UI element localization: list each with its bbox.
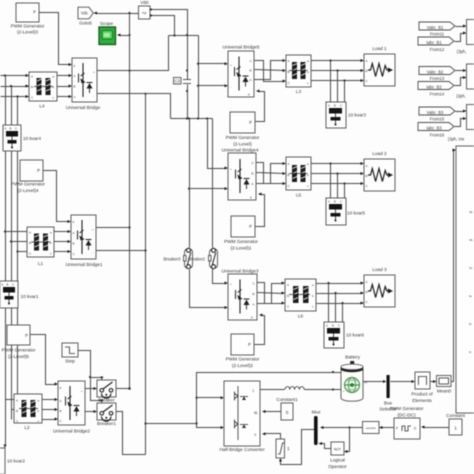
svg-text:A: A: [29, 231, 31, 235]
wire bus to halfbridge horizontal: [146, 423, 197, 425]
svg-text:P: P: [249, 120, 252, 125]
wire breaker3 branch lower to UB3 minus: [190, 270, 227, 308]
svg-text:+: +: [230, 282, 232, 286]
svg-text:-: -: [230, 85, 231, 89]
node V80 tap: [128, 12, 130, 14]
svg-text:Universal Bridge: Universal Bridge: [66, 105, 101, 110]
svg-text:Constant: Constant: [446, 413, 465, 418]
wire L3 to Load1 phase A: [312, 60, 363, 62]
wire L3 to Load1 phase C: [312, 80, 363, 82]
wire feeder vertical C: [17, 97, 19, 420]
svg-text:A: A: [5, 127, 7, 131]
svg-text:(2-Level)5: (2-Level)5: [8, 354, 29, 359]
svg-text:C: C: [12, 283, 14, 287]
wire V80 out top to plus rail: [152, 10, 188, 36]
wire breaker3 branch upper: [189, 119, 191, 248]
svg-text:A: A: [250, 78, 252, 82]
svg-text:Universal Bridge5: Universal Bridge5: [223, 45, 260, 50]
wire feeder vertical B: [11, 87, 13, 420]
svg-text:(2-Level): (2-Level): [233, 142, 252, 147]
PWM Generator (2-Level)2: [231, 334, 254, 355]
mean block Mean0: [437, 376, 452, 394]
scope B1: [467, 20, 474, 45]
wire coil to battery plus: [305, 389, 343, 391]
wire kvar5 tap B: [337, 174, 339, 199]
from tag Vabc_B3: [419, 107, 455, 115]
svg-text:Logical: Logical: [330, 458, 345, 463]
svg-text:P: P: [248, 342, 251, 347]
wire V80 out bottom to plus rail: [152, 16, 175, 36]
node bus plus tap: [128, 70, 130, 72]
wire UB5 out C to L3 c crossing: [255, 61, 285, 82]
wire L3 to Load1 phase B: [312, 70, 363, 72]
capacitor bank 10 kvar1: [0, 281, 39, 308]
bus selector Bus Selector: [379, 375, 397, 412]
wire breaker2 branch lower to UB3 plus: [213, 269, 227, 284]
svg-text:Breaker: Breaker: [98, 398, 115, 403]
product block Product of Elements: [411, 372, 433, 403]
inductor coil battery charger: [285, 387, 304, 390]
svg-text:C: C: [15, 127, 17, 131]
svg-text:PWM Generator: PWM Generator: [226, 357, 260, 362]
svg-text:Vdc: Vdc: [81, 11, 88, 16]
svg-text:PWM Generator: PWM Generator: [2, 348, 36, 353]
svg-text:A: A: [31, 75, 33, 79]
svg-text:B: B: [334, 104, 336, 108]
wire PWM1 to UB4 gate hook: [256, 195, 265, 227]
svg-text:-: -: [81, 413, 82, 417]
PWM Generator (2-Level)5: [7, 325, 30, 345]
wire PWM5 to UB2 gate: [31, 335, 57, 385]
inverter Universal Bridge5: [223, 45, 260, 98]
svg-text:C: C: [340, 200, 342, 204]
wire UB1 plus out to bus: [97, 227, 130, 229]
svg-text:Constant1: Constant1: [276, 397, 298, 402]
svg-text:Universal Bridge2: Universal Bridge2: [53, 429, 90, 434]
wire Step to Breaker control: [79, 351, 102, 378]
step source Step: [62, 343, 78, 364]
wire UB3 out A to L6 a crossing: [258, 284, 284, 304]
wire DC plus rail top: [169, 35, 199, 37]
node rail v80: [173, 34, 175, 36]
logical operator NOT: [328, 442, 347, 469]
PWM Generator (2-Level)4: [20, 160, 43, 181]
wire tap UB5 minus input: [199, 85, 227, 87]
svg-text:From15: From15: [430, 117, 445, 122]
node feeder C top: [16, 95, 18, 97]
svg-text:10 kvar5: 10 kvar5: [347, 211, 365, 216]
inverter Universal Bridge2: [53, 381, 90, 434]
svg-text:Vabc_B3: Vabc_B3: [427, 110, 444, 115]
wire UB5 out A to L3 a crossing: [255, 61, 285, 80]
breaker Breaker3 vertical: [164, 248, 193, 268]
wire Vabc_B3 to scope: [456, 111, 465, 113]
svg-text:+: +: [230, 167, 232, 171]
wire kvar6 tap B: [335, 294, 337, 323]
svg-text:NOT: NOT: [334, 448, 341, 452]
wire bus selector to product: [391, 381, 414, 383]
svg-text:Universal Bridge4: Universal Bridge4: [222, 148, 259, 153]
saturation limiter block: [276, 439, 290, 458]
PWM Generator (2-Level)1: [231, 216, 255, 237]
voltage measurement V80: [139, 6, 151, 19]
wire halfbridge dc input minus: [197, 424, 223, 428]
svg-text:10 kvar4: 10 kvar4: [23, 136, 41, 141]
wire halfbridge dc input plus: [197, 397, 223, 399]
node lower rail 189: [188, 117, 190, 119]
wire breaker2 branch upper: [212, 119, 214, 248]
svg-text:Va: Va: [469, 210, 473, 214]
node C3 bottom: [186, 90, 188, 92]
svg-text:P: P: [25, 333, 28, 338]
wire halfbridge port1 to coil: [261, 389, 285, 391]
svg-text:B: B: [250, 69, 252, 73]
svg-text:-: -: [230, 188, 231, 192]
svg-text:A: A: [60, 399, 62, 403]
wire phase A feeder top: [1, 75, 30, 77]
wire Iabc_B1 to scope: [455, 34, 465, 42]
op rectifier Universal Bridge: [66, 58, 101, 110]
wire L2 to UB2 A: [43, 399, 57, 401]
data type conversion convert: [363, 422, 380, 434]
svg-text:(3ph,: (3ph,: [457, 49, 467, 54]
wire UB4 out A to L5 a crossing: [257, 164, 285, 184]
wire UB1 minus out to bus: [97, 250, 146, 252]
capacitor bank 10 kvar4: [3, 125, 41, 151]
wire L1 to UB1 C: [55, 251, 70, 253]
svg-text:-: -: [230, 307, 231, 311]
svg-text:+: +: [343, 389, 345, 393]
inverter Universal Bridge4: [222, 148, 259, 201]
svg-text:L5: L5: [296, 193, 302, 198]
converter Half-Bridge Converter: [219, 381, 265, 452]
svg-text:A: A: [16, 399, 18, 403]
wire DC bus left negative vertical: [145, 94, 147, 455]
breaker Breaker1: [97, 403, 116, 426]
svg-text:Battery: Battery: [345, 355, 361, 360]
capacitor bank 10 kvar2: [0, 448, 25, 474]
wire PWM to UB5 gate hook: [256, 92, 265, 122]
svg-text:C: C: [340, 104, 342, 108]
svg-text:Half-Bridge Converter: Half-Bridge Converter: [219, 447, 265, 452]
svg-text:L2: L2: [24, 425, 30, 430]
svg-text:-: -: [93, 94, 94, 98]
svg-text:BL: BL: [254, 411, 258, 415]
svg-text:Vabc_B1: Vabc_B1: [427, 25, 444, 30]
node scope tap: [128, 34, 130, 36]
scope Scope: [99, 21, 116, 45]
wire kvar3 tap A: [330, 61, 332, 103]
svg-text:From12: From12: [430, 47, 445, 52]
svg-text:1: 1: [252, 389, 254, 393]
svg-text:A: A: [73, 231, 75, 235]
svg-text:From14: From14: [430, 92, 445, 97]
wire L5 to Load2 phase C: [312, 183, 363, 185]
svg-text:(2-Level)1: (2-Level)1: [230, 246, 251, 251]
wire L2 to UB2 B: [43, 409, 57, 411]
svg-text:Ia: Ia: [469, 294, 472, 298]
load block Load 3: [364, 267, 395, 307]
three-phase inductor L3: [286, 55, 311, 94]
svg-text:B: B: [31, 85, 33, 89]
wire constant1 to BL: [265, 411, 282, 413]
svg-text:Vabc_B2: Vabc_B2: [427, 69, 444, 74]
svg-text:Iabc_B1: Iabc_B1: [426, 40, 442, 45]
wire L5 to Load2 phase A: [312, 163, 363, 165]
svg-text:P: P: [396, 427, 398, 431]
wire L4 to bridge c: [58, 96, 71, 98]
wire L1 tap C: [18, 251, 28, 253]
wire Goto5 Vdc tap: [96, 13, 139, 15]
svg-text:B: B: [332, 324, 334, 328]
wire DC bus left positive vertical: [129, 14, 131, 389]
battery Battery: [341, 355, 368, 402]
svg-text:Goto5: Goto5: [79, 21, 92, 26]
svg-text:-: -: [92, 251, 93, 255]
wire battery minus rail: [197, 373, 343, 424]
svg-text:convert: convert: [366, 426, 376, 430]
svg-text:+: +: [92, 228, 94, 232]
svg-text:B: B: [60, 409, 62, 413]
svg-text:Mean0: Mean0: [437, 389, 452, 394]
inverter Universal Bridge3: [222, 269, 259, 321]
svg-text:(3ph,: (3ph,: [456, 94, 466, 99]
wire L4 to bridge a: [58, 75, 71, 77]
wire Vabc_B2 to scope: [456, 70, 465, 72]
svg-text:C: C: [338, 324, 340, 328]
wire NOT to mux: [321, 444, 332, 449]
node battery minus junction: [332, 371, 334, 373]
three-phase inductor L1: [27, 227, 54, 266]
svg-text:A: A: [288, 59, 290, 63]
svg-text:+: +: [230, 63, 232, 67]
svg-text:From13: From13: [430, 76, 445, 81]
svg-text:(2-Level)4: (2-Level)4: [17, 188, 38, 193]
wire Iabc_B2 to scope: [455, 78, 465, 86]
wire L2 tap A: [6, 399, 15, 401]
three-phase inductor L6: [285, 279, 316, 319]
svg-text:A: A: [74, 74, 76, 78]
wire Breaker out to plus bus: [117, 388, 130, 390]
from tag Iabc_B2: [418, 82, 454, 90]
svg-text:A: A: [326, 324, 328, 328]
load block Load 2: [364, 151, 395, 191]
node battery plus junction: [332, 388, 334, 390]
constant Constant1: [276, 397, 298, 420]
wire DC lower rail: [171, 118, 213, 120]
wire limiter to halfbridge port0: [265, 434, 281, 440]
wire tap UB4 minus: [190, 188, 227, 190]
node lower rail 198: [197, 117, 199, 119]
svg-text:From16: From16: [430, 133, 445, 138]
wire UB2 minus to Breaker1: [86, 411, 96, 413]
node not branch: [348, 426, 350, 428]
svg-text:PWM Generator: PWM Generator: [11, 182, 45, 187]
wire UB2 plus to Breaker: [86, 388, 96, 390]
wire Iabc_B3 to scope: [455, 119, 465, 127]
svg-text:V80: V80: [140, 0, 149, 5]
svg-text:Bus: Bus: [384, 401, 393, 406]
svg-text:0: 0: [254, 433, 256, 437]
svg-text:B: B: [74, 85, 76, 89]
node lower rail 207: [206, 117, 208, 119]
three-phase inductor L5: [286, 157, 311, 198]
PWM Generator (2-Level)3: [16, 3, 39, 22]
goto tag Goto5 Vdc: [78, 7, 93, 19]
inverter Universal Bridge1: [66, 215, 103, 267]
svg-text:Ib: Ib: [469, 322, 472, 326]
wire kvar5 tap A: [330, 164, 332, 199]
svg-text:B: B: [10, 127, 12, 131]
from tag Vabc_B2: [419, 67, 455, 75]
svg-text:PWM Generator: PWM Generator: [11, 24, 45, 29]
svg-text:Elements: Elements: [412, 398, 432, 403]
wire scope feed: [120, 35, 130, 37]
wire L1 to UB1 B: [55, 241, 70, 243]
from tag Vabc_B1: [419, 22, 455, 30]
svg-text:10 kvar1: 10 kvar1: [21, 294, 39, 299]
wire PWM4 to UB1 gate: [44, 171, 70, 222]
svg-text:A: A: [253, 303, 255, 307]
svg-text:Scope: Scope: [100, 21, 114, 26]
wire UB3 out B to L6 b: [258, 293, 284, 294]
wire L6 to Load3 phase A: [317, 283, 363, 285]
scope B2: [467, 64, 474, 89]
svg-text:(3ph, Ins: (3ph, Ins: [448, 137, 464, 142]
svg-text:B: B: [253, 292, 255, 296]
svg-text:C3: C3: [175, 79, 181, 84]
svg-text:P: P: [37, 168, 40, 173]
svg-text:P: P: [33, 10, 36, 15]
svg-text:Breaker3: Breaker3: [164, 257, 182, 262]
svg-text:From11: From11: [430, 32, 445, 37]
svg-text:10 kvar3: 10 kvar3: [348, 113, 366, 118]
wire Vabc_B1 to scope: [456, 26, 465, 28]
wire bridge minus output: [98, 94, 171, 119]
svg-text:(2-Level)3: (2-Level)3: [17, 30, 38, 35]
wire L2 tap B: [12, 409, 15, 411]
svg-text:L6: L6: [298, 314, 304, 319]
svg-text:B: B: [7, 283, 9, 287]
capacitor C3 lead bottom: [187, 85, 189, 119]
wire convert to mux: [323, 427, 363, 429]
svg-text:Iabc_B2: Iabc_B2: [426, 84, 442, 89]
wire L1 tap A: [6, 231, 28, 233]
svg-text:Vb: Vb: [469, 238, 473, 242]
wire phase B feeder top: [1, 86, 30, 88]
three-phase inductor L2: [14, 394, 42, 430]
wire mux out to limiter: [281, 430, 315, 465]
node tap198b: [197, 85, 199, 87]
capacitor C3 plates: [183, 79, 191, 81]
wire tap UB4 plus: [208, 119, 227, 169]
wire mean to scope block: [452, 151, 455, 382]
wire product to mean: [431, 381, 435, 383]
wire kvar3 tap B: [337, 71, 339, 103]
svg-text:Universal Bridge1: Universal Bridge1: [66, 262, 103, 267]
svg-text:Operator: Operator: [328, 464, 347, 469]
svg-text:10 kvar6: 10 kvar6: [346, 333, 364, 338]
svg-text:L1: L1: [38, 261, 44, 266]
wire L4 to bridge b: [58, 86, 71, 88]
from tag Iabc_B3: [418, 123, 454, 131]
wire UB3 out C to L6 c crossing: [258, 283, 284, 304]
svg-text:L4: L4: [39, 104, 45, 109]
svg-text:Mux: Mux: [312, 410, 322, 415]
wire L6 to Load3 phase B: [317, 293, 363, 295]
wire kvar3 tap C: [344, 81, 346, 103]
wire L5 to Load2 phase B: [312, 173, 363, 175]
breaker Breaker: [97, 380, 116, 403]
svg-text:+: +: [81, 389, 83, 393]
node lower rail C3: [186, 117, 188, 119]
from tag Iabc_B1: [418, 37, 454, 45]
mux Mux: [312, 410, 322, 446]
node rail C3 top: [186, 34, 188, 36]
wire phase C feeder top: [1, 96, 30, 98]
svg-text:(DC-DC): (DC-DC): [397, 413, 416, 418]
svg-text:1: 1: [454, 426, 457, 431]
svg-text:PWM Generator: PWM Generator: [226, 135, 260, 140]
wire L2 tap C: [15, 419, 18, 421]
svg-text:1: 1: [287, 446, 290, 451]
wire L6 to Load3 phase C: [317, 303, 363, 305]
svg-text:B: B: [73, 242, 75, 246]
wire L2 to UB2 C: [43, 419, 57, 421]
svg-text:Universal Bridge3: Universal Bridge3: [222, 269, 259, 274]
svg-text:Breaker2: Breaker2: [188, 257, 206, 262]
node tap198a: [197, 63, 199, 65]
svg-text:A: A: [2, 283, 4, 287]
node step branch: [89, 376, 91, 378]
wire pwm dcdc to convert: [382, 427, 395, 429]
svg-text:A: A: [366, 280, 368, 284]
wire kvar6 tap C: [342, 304, 344, 323]
pwm generator PWM Generator (DC-DC): [390, 406, 424, 439]
svg-text:Load 3: Load 3: [372, 267, 387, 272]
wire constant to pwm dcdc: [424, 427, 450, 429]
wire L1 tap B: [12, 241, 28, 243]
svg-text:Load 1: Load 1: [372, 46, 387, 51]
svg-text:10 kvar2: 10 kvar2: [7, 459, 25, 464]
svg-text:Vc: Vc: [469, 266, 473, 270]
node UB4 minus tap: [188, 188, 190, 190]
wire PWM3 to bridge gate: [40, 13, 71, 65]
wire PWM2 to UB3 gate hook: [255, 316, 265, 345]
wire kvar6 tap A: [328, 284, 330, 323]
svg-text:B: B: [366, 290, 368, 294]
wire Breaker1 out detour: [117, 412, 146, 455]
svg-text:Iabc_B3: Iabc_B3: [426, 125, 442, 130]
svg-text:B: B: [366, 69, 368, 73]
svg-text:Load 2: Load 2: [372, 151, 387, 156]
capacitor bank 10 kvar6: [324, 322, 364, 348]
svg-text:B: B: [366, 174, 368, 178]
svg-text:-: -: [343, 371, 344, 375]
three-phase inductor L4: [29, 72, 57, 109]
wire battery m to bus selector: [364, 381, 385, 383]
svg-text:P: P: [249, 224, 252, 229]
PWM Generator (2-Level): [230, 112, 255, 133]
svg-text:B: B: [252, 172, 254, 176]
wire UB4 out C to L5 c crossing: [257, 163, 285, 184]
svg-text:PWM Generator: PWM Generator: [224, 239, 258, 244]
wire Step to Breaker1 control: [91, 378, 102, 402]
capacitor C3 lead top: [187, 36, 189, 80]
scope B3: [467, 105, 474, 130]
svg-text:Product of: Product of: [411, 392, 433, 397]
svg-text:B: B: [287, 294, 289, 298]
